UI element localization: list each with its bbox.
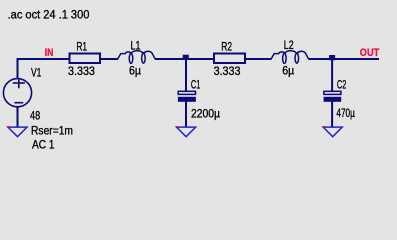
capacitor C1 bottom plate [178,97,196,102]
ground under C1 [177,127,196,137]
inductor L2 [271,51,309,64]
svg-text:2200µ: 2200µ [191,106,220,120]
svg-text:IN: IN [45,47,54,59]
wire R1 to L1 [100,58,118,60]
svg-text:C1: C1 [191,77,201,91]
ground pin dot V1 [7,126,9,128]
wire V1 top vertical [17,58,19,79]
svg-text:.ac oct 24 .1 300: .ac oct 24 .1 300 [8,7,90,21]
ground pin dot C2 [323,126,325,128]
ground under C2 [323,127,342,137]
wire node 1 down to C1 [185,58,187,92]
wire R2 to L2 [245,58,271,60]
svg-text:L2: L2 [284,38,294,52]
wire V1 bottom to ground [17,107,19,128]
svg-text:R1: R1 [76,39,87,53]
ground pin dot C1 [176,126,178,128]
svg-text:48: 48 [30,108,40,122]
wire C1 to ground [185,101,187,127]
resistor R2 [214,54,245,64]
svg-text:OUT: OUT [360,47,380,59]
svg-text:6µ: 6µ [282,63,294,77]
svg-text:V1: V1 [31,66,42,80]
svg-text:Rser=1m: Rser=1m [31,123,73,137]
wire node 2 down to C2 [331,58,333,92]
svg-text:R2: R2 [221,39,232,53]
node junction 1 [183,55,189,60]
svg-text:3.333: 3.333 [214,64,241,78]
capacitor C2 top plate [324,91,341,94]
svg-text:L1: L1 [131,39,141,53]
node junction 2 [329,55,335,60]
resistor R1 [70,54,101,64]
capacitor C2 bottom plate [324,97,342,102]
ground under V1 [8,127,27,137]
wire C2 to ground [331,101,333,127]
svg-text:AC 1: AC 1 [32,137,55,151]
svg-text:3.333: 3.333 [68,64,95,78]
svg-text:6µ: 6µ [129,63,141,77]
wire L1 to R2 through node 1 [155,58,214,60]
capacitor C1 top plate [178,91,195,94]
voltage source V1 [3,79,31,107]
wire L2 to OUT [309,58,380,60]
svg-text:470µ: 470µ [336,106,355,120]
inductor L1 [117,51,155,64]
wire IN horizontal [17,58,70,60]
svg-text:C2: C2 [337,78,347,92]
